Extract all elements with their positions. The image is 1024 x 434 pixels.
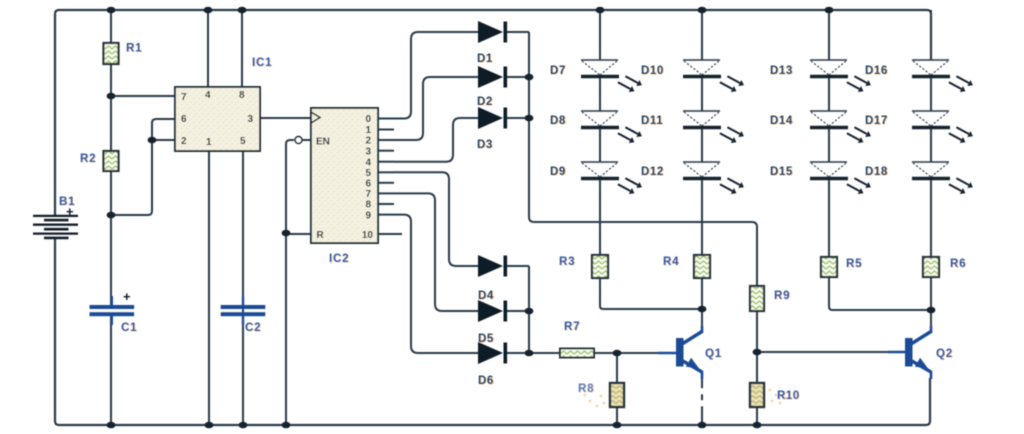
svg-text:5: 5	[240, 136, 246, 147]
svg-text:Q2: Q2	[936, 348, 953, 360]
svg-text:D16: D16	[865, 65, 888, 77]
svg-text:R2: R2	[80, 153, 96, 165]
svg-text:10: 10	[362, 230, 374, 241]
svg-text:C2: C2	[245, 322, 261, 334]
svg-text:+: +	[123, 289, 131, 304]
svg-text:D14: D14	[770, 115, 793, 127]
svg-text:D1: D1	[477, 53, 493, 65]
svg-text:2: 2	[365, 136, 371, 147]
svg-text:7: 7	[365, 189, 371, 200]
svg-text:IC2: IC2	[329, 253, 349, 265]
svg-text:D5: D5	[478, 333, 494, 345]
svg-text:4: 4	[205, 90, 211, 101]
svg-text:R5: R5	[846, 258, 862, 270]
svg-text:3: 3	[247, 114, 253, 125]
svg-text:D18: D18	[865, 166, 888, 178]
svg-text:4: 4	[365, 157, 371, 168]
svg-text:D10: D10	[641, 65, 664, 77]
svg-text:R10: R10	[777, 390, 800, 402]
svg-text:2: 2	[181, 136, 187, 147]
svg-text:R1: R1	[126, 43, 142, 55]
svg-text:IC1: IC1	[252, 57, 272, 69]
svg-text:1: 1	[206, 137, 212, 148]
svg-text:Q1: Q1	[705, 348, 722, 360]
svg-text:R7: R7	[564, 321, 580, 333]
svg-text:D9: D9	[550, 166, 566, 178]
svg-text:D6: D6	[478, 375, 494, 387]
svg-text:D15: D15	[770, 166, 793, 178]
svg-text:R3: R3	[559, 256, 575, 268]
svg-text:R: R	[317, 230, 325, 241]
svg-text:D11: D11	[641, 115, 663, 127]
svg-text:R8: R8	[578, 383, 594, 395]
svg-text:EN: EN	[316, 137, 330, 148]
svg-text:+: +	[66, 204, 74, 219]
svg-text:D4: D4	[478, 290, 494, 302]
svg-text:9: 9	[365, 210, 371, 221]
svg-text:5: 5	[365, 168, 371, 179]
svg-text:3: 3	[365, 146, 371, 157]
svg-text:D8: D8	[550, 115, 566, 127]
svg-text:R6: R6	[950, 258, 966, 270]
svg-text:8: 8	[239, 90, 245, 101]
svg-text:D12: D12	[641, 166, 664, 178]
svg-text:6: 6	[365, 179, 371, 190]
svg-text:D17: D17	[865, 115, 888, 127]
svg-text:C1: C1	[121, 322, 137, 334]
svg-text:1: 1	[365, 125, 371, 136]
svg-text:D2: D2	[477, 96, 493, 108]
svg-text:D3: D3	[477, 139, 493, 151]
svg-text:7: 7	[181, 92, 187, 103]
svg-text:R9: R9	[774, 290, 790, 302]
svg-text:6: 6	[181, 114, 187, 125]
svg-text:D7: D7	[550, 65, 566, 77]
svg-text:0: 0	[365, 114, 371, 125]
svg-text:D13: D13	[770, 65, 793, 77]
svg-text:R4: R4	[663, 256, 679, 268]
svg-text:8: 8	[365, 200, 371, 211]
